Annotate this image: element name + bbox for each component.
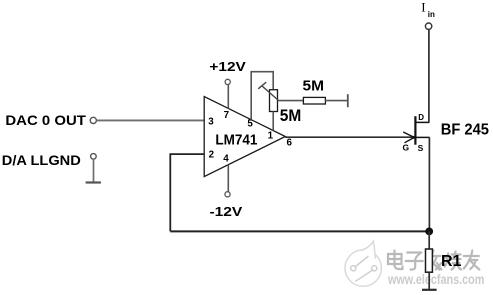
wire +12V to pin 7 (227, 84, 229, 108)
wire bottom feedback horizontal (170, 230, 429, 232)
power -12V (210, 192, 243, 219)
potentiometer P1 5M (258, 82, 301, 125)
svg-text:5M: 5M (280, 106, 302, 125)
wire DAC to pin 3 (96, 119, 204, 121)
wire potentiometer bottom to pin 1 (272, 112, 274, 131)
ground bottom (422, 289, 437, 291)
svg-text:D: D (418, 113, 424, 122)
svg-text:DAC 0 OUT: DAC 0 OUT (5, 112, 86, 128)
svg-text:BF 245: BF 245 (441, 122, 489, 139)
terminal D/A LLGND (2, 152, 96, 168)
op-amp U1 LM741 (204, 97, 285, 177)
svg-text:2: 2 (209, 150, 215, 161)
svg-text:5M: 5M (303, 77, 325, 94)
transistor Q1 BF 245 (402, 113, 489, 153)
wire I_in to drain (428, 30, 430, 122)
svg-text:www.elecfans.com: www.elecfans.com (387, 271, 484, 287)
wire pin 5 loop to potentiometer top (251, 72, 273, 120)
svg-text:S: S (418, 143, 424, 153)
power +12V (209, 59, 246, 84)
terminal DAC 0 OUT (5, 112, 96, 128)
resistor 5M (303, 77, 326, 104)
wire resistor 5M to terminal bar (325, 100, 347, 102)
svg-text:6: 6 (286, 137, 292, 148)
wire pin 2 feedback left and down (170, 154, 204, 231)
svg-text:G: G (402, 142, 409, 152)
svg-text:in: in (428, 10, 435, 19)
wire wiper to resistor 5M (278, 100, 303, 102)
wire R1 to ground (428, 272, 430, 289)
node junction (425, 228, 433, 236)
svg-text:+12V: +12V (209, 59, 246, 74)
watermark text 电子发烧友 (388, 251, 479, 270)
svg-text:3: 3 (208, 117, 214, 128)
wire junction to R1 (428, 231, 430, 249)
wire op-amp output to gate (285, 136, 414, 138)
wire pin 4 to -12V (227, 165, 229, 192)
wire source down to junction (428, 137, 430, 231)
svg-text:R1: R1 (441, 253, 462, 270)
svg-text:4: 4 (223, 153, 229, 164)
svg-text:5: 5 (247, 118, 253, 129)
svg-text:1: 1 (268, 131, 274, 142)
resistor R1 (426, 249, 462, 272)
ground D/A LLGND (86, 181, 101, 183)
svg-text:LM741: LM741 (215, 132, 257, 149)
watermark logo (345, 241, 381, 286)
wire D/A LLGND stem (93, 159, 95, 182)
svg-text:7: 7 (224, 110, 230, 121)
terminal I_in (421, 0, 435, 29)
svg-text:-12V: -12V (210, 204, 243, 219)
svg-text:I: I (421, 0, 425, 14)
svg-text:D/A LLGND: D/A LLGND (2, 152, 81, 168)
terminal bar (347, 94, 349, 107)
